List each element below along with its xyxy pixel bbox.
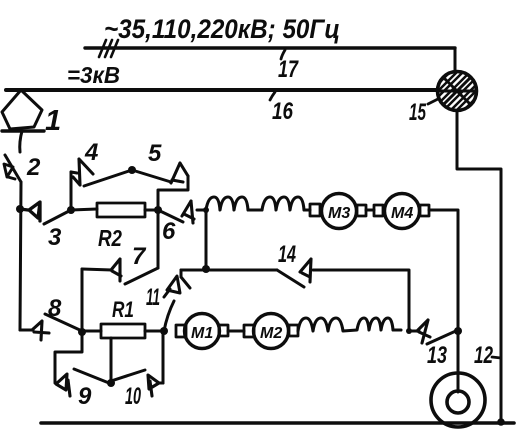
node right of R1 [160,327,168,335]
wire M1 to M2 [228,330,244,333]
wheel 12 inner [447,391,469,413]
svg-text:15: 15 [409,99,426,126]
node at R1 tap [107,379,115,387]
wire node to R1 [82,330,101,333]
svg-text:R2: R2 [98,225,122,251]
svg-text:М1: М1 [191,325,213,342]
svg-text:8: 8 [48,295,62,322]
switch 14 [277,259,311,287]
wire switch 7 to lower bus [81,269,84,332]
svg-text:5: 5 [148,140,162,167]
wire vertical from M3 row to row 14 [205,210,208,269]
node at inductor and row 14 junction [406,328,412,334]
switch 2 [4,155,21,182]
svg-text:11: 11 [146,284,160,311]
svg-text:12: 12 [474,342,493,369]
wire M3 to M4 [366,209,374,212]
node label 17 tick [281,50,285,59]
wire left bus vertical [20,182,21,330]
wire drop from line 17 to converter 15 [454,48,457,72]
three-phase slash marks on line 17 [99,40,118,57]
switch 8 [20,314,82,340]
node left of R1 [78,328,86,336]
wire row 14 right [313,270,409,331]
switch 10 [111,370,163,396]
node on row 14 [202,265,210,273]
switch 13 [409,320,458,344]
node label 16 tick [270,92,275,100]
wire N1 to R2 [71,209,97,210]
node at switch 13 junction [454,327,462,335]
svg-text:2: 2 [26,154,41,181]
smoothing reactor L1 [206,197,310,210]
wire bridge row 14 left [181,269,277,272]
svg-text:10: 10 [125,383,141,410]
converter substation 15 (hatched circle) [423,57,491,125]
resistor R2 [97,203,145,217]
svg-text:14: 14 [278,241,296,268]
wire stub for switch 9 [55,332,82,383]
switch 5 [132,163,188,183]
node after switch 6 [203,207,209,213]
switch 4 [71,159,132,186]
wheel 12 outer [431,373,485,427]
svg-text:7: 7 [132,243,147,270]
wire from converter 15 down and right [457,111,501,423]
node at switch 3 tap [16,205,24,213]
pantograph 1 [2,90,44,152]
wire M4 to wheel line [429,210,458,392]
svg-text:~35,110,220кВ; 50Гц: ~35,110,220кВ; 50Гц [104,14,340,44]
label 15 tick [428,99,438,104]
smoothing reactor L2 [298,318,401,331]
wire bypass riser from N1 [70,172,73,210]
svg-text:=3кВ: =3кВ [67,62,120,88]
node between switches 4 and 5 [128,166,136,174]
switch 9 [56,369,109,396]
wire stub for switch 10 [162,331,165,383]
motor M1 [176,314,228,349]
svg-text:М3: М3 [328,205,350,222]
rail (bottom return) [41,421,514,425]
switch 3 [20,202,71,224]
motor M3 [310,194,366,229]
switch 6 [158,201,206,223]
svg-text:6: 6 [162,218,176,245]
wire AC line 17 [85,46,455,49]
resistor R1 tap wire [110,338,113,383]
motor M2 [244,314,298,349]
wire DC line 16 [6,88,438,92]
switch 7 [82,259,158,284]
svg-text:1: 1 [45,105,61,137]
svg-text:М2: М2 [260,325,282,342]
svg-text:16: 16 [272,98,294,125]
wire bypass return to R2 node [158,176,188,268]
svg-text:13: 13 [427,342,447,369]
label 12 tick [492,357,501,358]
svg-text:9: 9 [78,383,92,410]
switch 11 [164,270,190,331]
svg-text:R1: R1 [112,297,134,322]
node N1 left of R2 [67,206,75,214]
node on rail at converter return [497,418,505,426]
svg-text:17: 17 [278,56,299,83]
wire R1 to node [145,330,164,333]
wire R2 to node [145,209,158,212]
motor M4 [374,194,429,229]
svg-text:4: 4 [84,139,98,166]
resistor R1 [101,324,145,338]
svg-text:3: 3 [48,224,62,251]
node right of R2 [154,206,162,214]
svg-text:М4: М4 [391,205,413,222]
